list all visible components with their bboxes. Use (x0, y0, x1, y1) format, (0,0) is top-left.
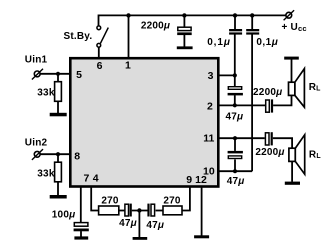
svg-text:5: 5 (76, 69, 82, 81)
svg-text:3: 3 (208, 70, 214, 82)
svg-text:Uin2: Uin2 (25, 138, 48, 149)
svg-text:2: 2 (207, 101, 213, 113)
svg-text:2200μ: 2200μ (255, 147, 284, 158)
svg-text:8: 8 (74, 150, 80, 162)
svg-text:0,1μ: 0,1μ (256, 37, 278, 48)
svg-text:270: 270 (163, 196, 181, 207)
svg-text:12: 12 (195, 174, 207, 186)
svg-text:7: 7 (83, 172, 89, 184)
svg-text:270: 270 (101, 196, 119, 207)
svg-text:47μ: 47μ (146, 220, 164, 231)
svg-text:Uin1: Uin1 (25, 55, 48, 66)
svg-text:33k: 33k (37, 88, 55, 99)
svg-text:47μ: 47μ (227, 176, 245, 187)
svg-text:6: 6 (97, 60, 103, 72)
svg-text:47μ: 47μ (226, 111, 244, 122)
svg-text:2200μ: 2200μ (253, 87, 282, 98)
svg-text:+ Ucc: + Ucc (282, 22, 307, 33)
svg-text:33k: 33k (37, 169, 55, 180)
svg-text:St.By.: St.By. (64, 31, 93, 42)
svg-text:9: 9 (186, 174, 192, 186)
svg-text:1: 1 (125, 60, 131, 72)
svg-text:0,1μ: 0,1μ (207, 37, 231, 48)
svg-text:100μ: 100μ (52, 209, 76, 220)
svg-text:11: 11 (203, 132, 214, 144)
svg-text:2200μ: 2200μ (141, 20, 170, 31)
svg-text:4: 4 (93, 172, 99, 184)
svg-text:47μ: 47μ (119, 218, 137, 229)
